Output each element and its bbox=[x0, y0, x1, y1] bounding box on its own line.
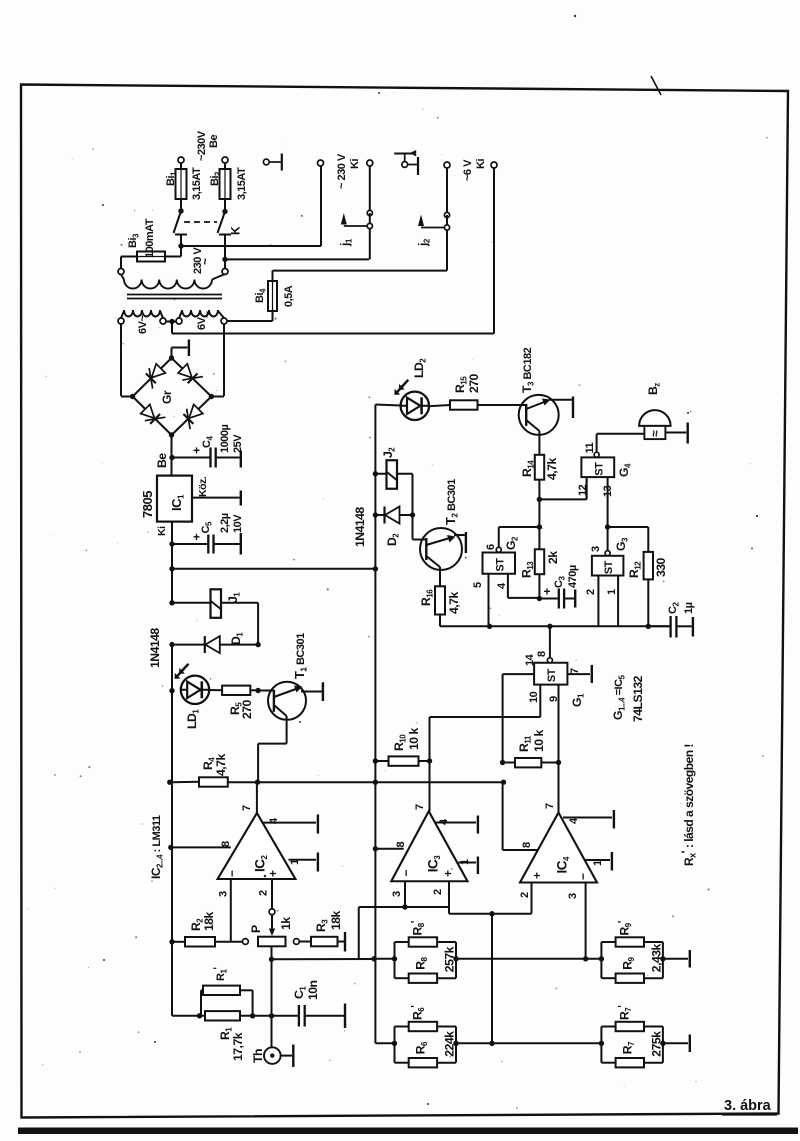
svg-text:8: 8 bbox=[536, 651, 548, 657]
svg-text:7805: 7805 bbox=[140, 491, 155, 518]
svg-text:1N4148: 1N4148 bbox=[148, 628, 162, 668]
svg-text:~230V: ~230V bbox=[196, 130, 208, 161]
svg-text:Rx' : lásd a szövegben !: Rx' : lásd a szövegben ! bbox=[679, 744, 698, 866]
svg-text:3: 3 bbox=[218, 891, 230, 897]
svg-text:7: 7 bbox=[241, 805, 253, 811]
svg-text:Be: Be bbox=[208, 135, 220, 148]
svg-text:270: 270 bbox=[467, 373, 481, 393]
svg-text:~6 V: ~6 V bbox=[462, 159, 474, 181]
svg-text:3. ábra: 3. ábra bbox=[724, 1098, 772, 1114]
svg-text:ST: ST bbox=[494, 558, 506, 572]
svg-text:−: − bbox=[399, 870, 413, 877]
svg-text:3,15AT: 3,15AT bbox=[191, 167, 203, 200]
svg-text:5: 5 bbox=[472, 582, 484, 588]
svg-text:4,7k: 4,7k bbox=[545, 458, 559, 480]
svg-text:7: 7 bbox=[414, 804, 426, 810]
svg-text:2,2µ: 2,2µ bbox=[219, 513, 231, 533]
svg-text:10 k: 10 k bbox=[532, 730, 546, 752]
svg-text:ST: ST bbox=[593, 462, 605, 476]
svg-text:10V: 10V bbox=[232, 514, 244, 533]
svg-text:+: + bbox=[441, 870, 455, 877]
svg-text:+: + bbox=[193, 530, 200, 544]
svg-text:G1...4 =IC5: G1...4 =IC5 bbox=[611, 674, 627, 720]
svg-text:+: + bbox=[193, 444, 200, 458]
svg-text:IC2...4 : LM311: IC2...4 : LM311 bbox=[149, 815, 165, 879]
svg-text:8: 8 bbox=[220, 841, 232, 847]
svg-text:Gr: Gr bbox=[160, 390, 174, 404]
svg-text:Be: Be bbox=[155, 453, 169, 468]
svg-text:1N4148: 1N4148 bbox=[353, 507, 367, 547]
svg-text:18k: 18k bbox=[202, 911, 216, 931]
svg-text:470µ: 470µ bbox=[567, 565, 579, 588]
svg-text:100mAT: 100mAT bbox=[144, 218, 156, 258]
svg-text:3: 3 bbox=[567, 893, 579, 899]
svg-text:T3 BC182: T3 BC182 bbox=[520, 347, 536, 393]
svg-text:T1 BC301: T1 BC301 bbox=[292, 633, 309, 679]
svg-text:1: 1 bbox=[606, 589, 618, 595]
svg-text:T2 BC301: T2 BC301 bbox=[443, 479, 460, 525]
svg-text:+: + bbox=[544, 585, 551, 599]
svg-text:3,15AT: 3,15AT bbox=[236, 167, 248, 200]
svg-text:7: 7 bbox=[544, 803, 556, 809]
svg-text:11: 11 bbox=[584, 442, 596, 453]
svg-text:4,7k: 4,7k bbox=[214, 754, 228, 776]
svg-text:6: 6 bbox=[485, 544, 497, 550]
svg-text:K: K bbox=[229, 226, 243, 235]
svg-text:25V: 25V bbox=[232, 434, 244, 453]
svg-text:Köz.: Köz. bbox=[197, 476, 209, 497]
svg-text:74LS132: 74LS132 bbox=[631, 675, 645, 722]
svg-text:270: 270 bbox=[240, 699, 254, 719]
svg-text:Ki: Ki bbox=[349, 159, 361, 169]
svg-text:−: − bbox=[225, 870, 239, 877]
svg-text:8: 8 bbox=[395, 842, 407, 848]
svg-text:14: 14 bbox=[524, 653, 536, 666]
svg-text:+: + bbox=[266, 870, 280, 877]
svg-text:1000µ: 1000µ bbox=[219, 425, 231, 453]
svg-text:+: + bbox=[530, 872, 544, 879]
svg-text:−: − bbox=[576, 873, 590, 880]
svg-text:2: 2 bbox=[258, 890, 270, 896]
svg-text:2: 2 bbox=[432, 889, 444, 895]
svg-text:1µ: 1µ bbox=[683, 602, 695, 614]
svg-text:2k: 2k bbox=[546, 551, 560, 564]
svg-text:≈: ≈ bbox=[648, 430, 662, 437]
svg-text:Ki: Ki bbox=[475, 159, 487, 169]
svg-text:3: 3 bbox=[391, 891, 403, 897]
svg-text:3: 3 bbox=[590, 546, 602, 552]
svg-text:Th: Th bbox=[251, 1049, 265, 1063]
svg-text:~ 230 V: ~ 230 V bbox=[336, 153, 348, 189]
svg-text:17,7k: 17,7k bbox=[231, 1032, 245, 1061]
svg-text:1k: 1k bbox=[279, 917, 293, 930]
svg-text:0,5A: 0,5A bbox=[283, 285, 295, 307]
svg-text:ST: ST bbox=[603, 560, 615, 574]
svg-text:~: ~ bbox=[198, 258, 212, 265]
svg-text:8: 8 bbox=[521, 842, 533, 848]
svg-text:18k: 18k bbox=[329, 910, 343, 930]
svg-text:4,7k: 4,7k bbox=[447, 592, 461, 614]
svg-text:ST: ST bbox=[546, 668, 558, 682]
svg-text:6V~: 6V~ bbox=[137, 315, 149, 334]
svg-text:10n: 10n bbox=[306, 980, 320, 1000]
svg-text:Ki: Ki bbox=[156, 526, 168, 536]
svg-text:10: 10 bbox=[528, 691, 540, 703]
svg-text:10 k: 10 k bbox=[407, 728, 421, 750]
svg-text:330: 330 bbox=[654, 557, 668, 577]
svg-text:P: P bbox=[249, 925, 263, 933]
svg-text:2: 2 bbox=[585, 589, 597, 595]
svg-text:2: 2 bbox=[519, 892, 531, 898]
svg-text:~: ~ bbox=[200, 311, 214, 318]
